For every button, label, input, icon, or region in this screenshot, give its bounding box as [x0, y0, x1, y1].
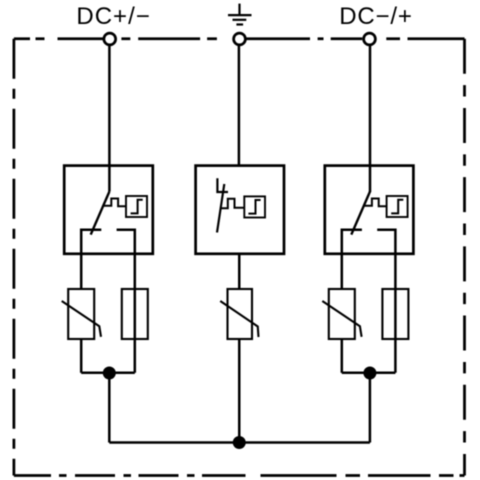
- fuse F1 through-wire to node A: [134, 289, 137, 373]
- varistor RV1 stroke: [62, 301, 101, 337]
- wire: bottom common bus: [109, 441, 370, 444]
- varistor RV3 body: [329, 289, 355, 339]
- U3 right contact + wire to F2: [377, 230, 395, 289]
- U1 switch blade: [91, 192, 110, 235]
- wire: terminal X1 down to switch pivot in U1: [108, 39, 111, 192]
- wire: terminal X3 down to switch pivot in U3: [369, 39, 372, 192]
- svg-text:DC−/+: DC−/+: [339, 3, 412, 30]
- U1 left contact + wire to RV1: [81, 230, 101, 289]
- varistor RV2 stroke: [220, 301, 258, 337]
- enclosure dash-dot border top: [14, 37, 465, 40]
- ground: bar 3: [236, 23, 243, 25]
- enclosure dash-dot border right: [463, 39, 466, 476]
- U2 step symbol: [248, 200, 260, 214]
- fuse F2 body: [382, 289, 408, 339]
- disconnection device U2 box: [196, 166, 284, 254]
- wire: RV3 to node B: [341, 339, 344, 373]
- enclosure dash-dot border bottom: [14, 474, 465, 477]
- U1 right contact + wire to F1: [117, 230, 135, 289]
- U2 switch blade: [217, 184, 224, 233]
- U2 signalling contact box: [244, 196, 265, 217]
- wire: node A connector: [81, 372, 135, 375]
- varistor RV3 stroke: [322, 301, 361, 337]
- wire: node B down to bus: [369, 373, 372, 443]
- terminal X3 DC-/+: [364, 33, 376, 45]
- U3 left contact + wire to RV3: [342, 230, 362, 289]
- U3 signalling contact box: [387, 196, 408, 217]
- ground: bar 1: [228, 14, 252, 16]
- U2 fixed contact: [217, 178, 228, 192]
- wire: ground terminal X2 down to box U2: [238, 39, 241, 166]
- varistor RV2 body: [228, 289, 253, 339]
- junction node B: [363, 367, 376, 380]
- U3 switch blade: [351, 192, 370, 235]
- enclosure dash-dot border left: [13, 39, 16, 476]
- wire: U2 to RV2: [238, 254, 241, 289]
- wire: RV1 to node A: [80, 339, 83, 373]
- disconnection device U3 box: [325, 166, 414, 254]
- fuse F2 through-wire to node B: [394, 289, 397, 373]
- disconnection device U1 box: [64, 166, 153, 254]
- wire: node B connector: [342, 372, 396, 375]
- terminal X2 ground: [234, 33, 246, 45]
- junction node C on bus: [233, 436, 246, 449]
- ground: stem: [238, 4, 240, 16]
- varistor RV1 body: [68, 289, 94, 339]
- junction node A: [103, 367, 116, 380]
- ground: bar 2: [233, 19, 247, 21]
- terminal X1 DC+/-: [104, 33, 116, 45]
- U3 step symbol: [391, 200, 403, 214]
- wire: node A down to bus: [108, 373, 111, 443]
- U1 signalling contact box: [126, 196, 147, 217]
- U1 step symbol: [131, 200, 143, 214]
- U3 thermal trip link: [364, 199, 387, 207]
- fuse F1 body: [122, 289, 148, 339]
- wire: RV2 down to bus junction: [238, 339, 241, 443]
- svg-text:DC+/−: DC+/−: [76, 3, 150, 30]
- U1 thermal trip link: [104, 199, 127, 207]
- U2 thermal trip link: [221, 199, 244, 209]
